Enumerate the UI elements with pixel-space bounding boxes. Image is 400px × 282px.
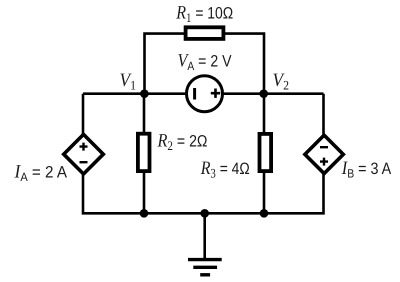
wire R3 branch <box>263 94 266 214</box>
voltage source VA <box>187 76 223 112</box>
wire R2 branch <box>143 94 146 214</box>
node R3 bottom <box>260 209 269 218</box>
svg-text:R2 = 2Ω: R2 = 2Ω <box>157 130 208 153</box>
IA plus mark <box>80 143 88 151</box>
VA minus terminal <box>193 88 196 100</box>
resistor R2 <box>138 134 150 171</box>
node V1 <box>140 89 149 98</box>
resistor R1 <box>186 27 224 39</box>
current source IB <box>305 135 343 173</box>
node ground junction <box>200 209 209 218</box>
IB minus mark <box>320 146 328 148</box>
IA minus mark <box>80 161 88 163</box>
ground <box>188 213 222 274</box>
svg-text:VA = 2 V: VA = 2 V <box>178 51 232 74</box>
VA plus terminal <box>211 89 220 98</box>
IB plus mark <box>320 158 328 166</box>
node R2 bottom <box>140 209 149 218</box>
resistor R3 <box>260 134 272 171</box>
wire node row V1-V2 <box>83 92 324 95</box>
current source IA <box>64 134 104 174</box>
wire left branch <box>83 94 324 214</box>
node V2 <box>259 89 268 98</box>
svg-text:R3 = 4Ω: R3 = 4Ω <box>200 158 250 181</box>
svg-text:R1 = 10Ω: R1 = 10Ω <box>175 3 233 26</box>
wire top rail (R1 branch) <box>145 34 265 94</box>
